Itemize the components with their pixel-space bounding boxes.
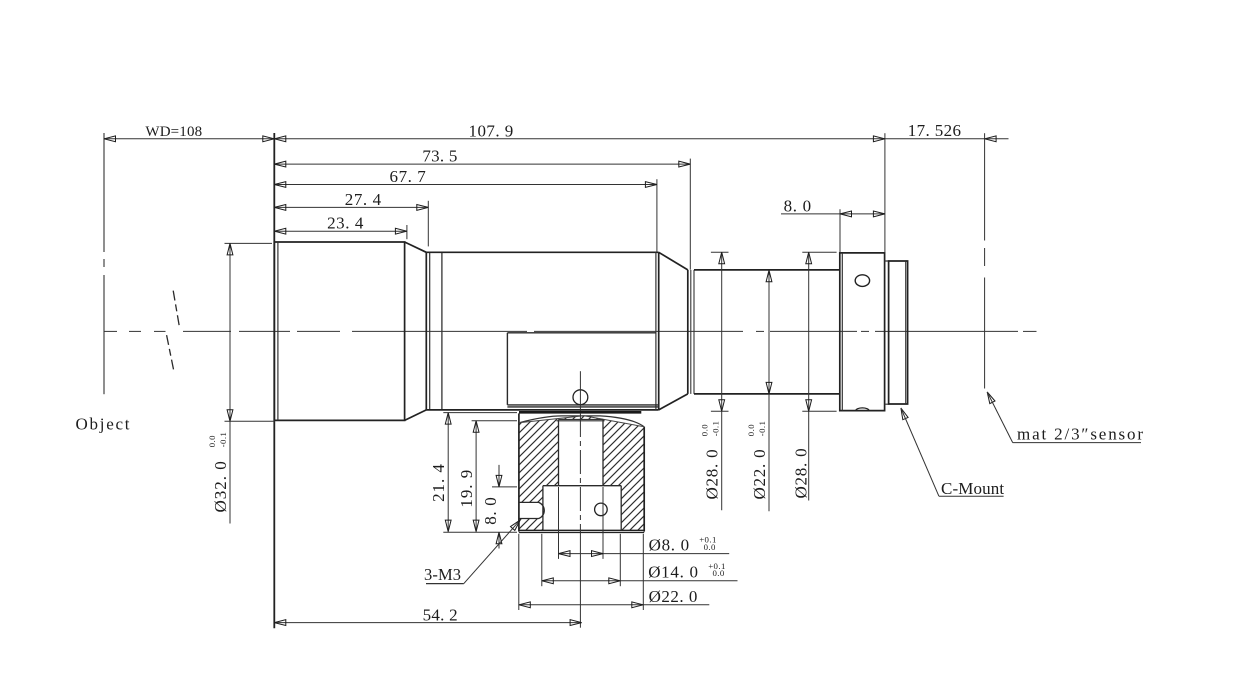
extension line at counterbore top for 8.0 — [492, 486, 517, 488]
dimension line Phi22 — [519, 604, 710, 606]
ring edge lines after taper — [425, 252, 427, 410]
dimension line Phi14 — [542, 580, 738, 582]
foot bottom double line — [519, 529, 644, 531]
extension line at body bottom for 21.4 — [443, 412, 517, 414]
Phi8 bore right wall — [602, 419, 604, 485]
3-M3 notch outline with drilled end — [519, 502, 544, 518]
C-mount thread ring — [889, 261, 908, 404]
foot saddle top curve — [519, 416, 644, 427]
svg-text:73. 5: 73. 5 — [422, 147, 457, 166]
extension line at foot bottom — [443, 531, 517, 533]
svg-text:0.0: 0.0 — [699, 424, 709, 436]
svg-text:-0.1: -0.1 — [218, 432, 228, 448]
svg-text:0.0: 0.0 — [704, 542, 716, 552]
Phi22 dimension line — [768, 270, 770, 511]
Phi28 first dimension line — [721, 252, 723, 510]
thread relief line on ring — [905, 261, 907, 404]
extension line for 27.4 — [427, 201, 429, 247]
Phi28 second: extension stubs — [802, 251, 836, 253]
svg-text:-0.1: -0.1 — [757, 421, 767, 437]
dimension line 67.7 — [274, 184, 657, 186]
extension line bore left to Phi8 dim — [558, 487, 560, 559]
Phi8 bore top edge double line — [559, 418, 604, 420]
extension line for 67.7 — [656, 179, 658, 252]
dimension line WD=108 / 107.9 / 17.526 — [104, 138, 1009, 140]
Phi22 neck top edge — [694, 269, 840, 271]
svg-text:0.0: 0.0 — [713, 568, 725, 578]
extension line for 73.5 — [689, 159, 691, 270]
Phi28 first tolerance rotated — [699, 421, 720, 437]
flange face extension line — [884, 133, 886, 253]
collar setscrew centre mark — [579, 371, 581, 412]
break squiggle upper segment — [173, 291, 179, 326]
sensor leader — [987, 392, 995, 404]
svg-text:Ø28. 0: Ø28. 0 — [792, 448, 811, 499]
svg-text:Ø28. 0: Ø28. 0 — [703, 449, 722, 500]
sensor plane dash-dot line — [984, 133, 986, 240]
dimension line 8.0 (counterbore depth), outside arrows — [498, 465, 500, 487]
svg-text:3-M3: 3-M3 — [424, 565, 461, 584]
Phi32 extension line top — [225, 242, 273, 244]
taper Phi28 to Phi22 bottom — [659, 394, 688, 410]
extension line foot right to Phi22 dim — [642, 534, 644, 610]
foot saddle chord lines — [519, 416, 584, 423]
svg-text:54. 2: 54. 2 — [423, 605, 458, 624]
Phi32 tolerance stack rotated — [207, 432, 228, 448]
extension line at bore top for 19.9 — [472, 420, 517, 422]
svg-text:19. 9: 19. 9 — [457, 469, 476, 508]
lower collar rectangle — [507, 333, 658, 407]
extension line counterbore left to Phi14 dim — [541, 534, 543, 586]
break squiggle lower segment — [167, 335, 174, 370]
C-mount clamp block Phi28 — [840, 253, 885, 411]
foot left edge — [518, 413, 520, 531]
main body right edge double line — [655, 252, 657, 410]
svg-text:0.0: 0.0 — [746, 424, 756, 436]
dimension line Phi8 — [559, 553, 730, 555]
svg-text:Ø22. 0: Ø22. 0 — [649, 587, 698, 606]
object plane vertical line (dash-dot) — [103, 133, 105, 252]
Phi32 extension line bottom — [225, 420, 275, 422]
setscrew hole ellipse on clamp block — [855, 275, 869, 287]
Phi28 first: extension stubs — [711, 251, 729, 253]
dimension line 54.2 — [274, 622, 581, 624]
svg-text:Ø8. 0: Ø8. 0 — [649, 536, 690, 555]
clamp block left inner edge — [841, 253, 843, 411]
Phi14 counterbore top edge — [543, 485, 621, 487]
dimension line 21.4 — [447, 413, 449, 532]
Phi28 second dimension line — [808, 252, 810, 500]
svg-text:C-Mount: C-Mount — [941, 479, 1004, 498]
extension line for 23.4 — [406, 225, 408, 239]
svg-text:8. 0: 8. 0 — [481, 497, 500, 525]
focus ring edge line — [441, 252, 443, 410]
front barrel inner left edge line — [277, 242, 279, 420]
Phi22 neck bottom edge — [694, 393, 840, 395]
Phi22 neck left edge lines — [687, 270, 689, 394]
dimension line 27.4 — [274, 206, 428, 208]
front barrel Phi32 outline — [274, 242, 404, 420]
bottom setscrew partial ellipse — [856, 408, 869, 411]
dimension line 73.5 — [274, 163, 690, 165]
mount hole circle in counterbore — [595, 503, 608, 516]
Phi14 tolerance stack — [708, 561, 726, 578]
svg-text:-0.1: -0.1 — [710, 421, 720, 437]
main body Phi28 bottom edge — [426, 409, 658, 411]
Phi32 dimension line — [229, 243, 231, 523]
dimension line 19.9 — [475, 421, 477, 532]
foot top contact thick line — [519, 411, 641, 414]
svg-text:Object: Object — [76, 415, 132, 434]
3-M3 underline and leader — [426, 583, 464, 585]
dimension line 23.4 — [274, 230, 407, 232]
svg-text:0.0: 0.0 — [207, 435, 217, 447]
foot centreline vertical dash-dot — [579, 413, 581, 534]
taper Phi28 to Phi22 top — [659, 252, 688, 270]
extension line foot left to Phi22 dim — [518, 534, 520, 610]
collar setscrew circle — [573, 390, 588, 405]
svg-text:8. 0: 8. 0 — [784, 196, 812, 215]
svg-text:Ø14. 0: Ø14. 0 — [648, 563, 698, 582]
C-Mount leader — [901, 408, 908, 420]
Phi14 counterbore left wall — [542, 486, 544, 531]
svg-text:Ø22. 0: Ø22. 0 — [750, 449, 769, 500]
svg-text:107. 9: 107. 9 — [469, 122, 514, 141]
svg-text:23. 4: 23. 4 — [327, 214, 364, 233]
dimension line 8.0 (C-mount clamp width) — [781, 213, 885, 215]
svg-text:21. 4: 21. 4 — [429, 463, 448, 502]
taper Phi32 to Phi28 top — [405, 242, 427, 252]
svg-text:27. 4: 27. 4 — [345, 190, 382, 209]
Phi22 tolerance rotated — [746, 421, 767, 437]
foot centreline extension to 54.2 dimension — [579, 534, 581, 628]
svg-text:mat 2/3″sensor: mat 2/3″sensor — [1017, 424, 1145, 443]
Phi8 tolerance stack — [699, 535, 717, 553]
foot right edge — [643, 427, 645, 532]
Phi14 counterbore right wall — [620, 486, 622, 531]
svg-text:67. 7: 67. 7 — [390, 167, 427, 186]
svg-text:WD=108: WD=108 — [145, 124, 202, 140]
taper Phi32 to Phi28 bottom — [405, 410, 427, 421]
svg-text:17. 526: 17. 526 — [908, 121, 962, 140]
front face main extension line — [273, 133, 275, 628]
extension line counterbore right to Phi14 dim — [619, 534, 621, 586]
horizontal optical centerline segments — [104, 330, 117, 332]
extension line bore right to Phi8 dim — [602, 487, 604, 559]
rear step band — [885, 261, 889, 404]
main body Phi28 top edge — [426, 251, 658, 253]
Phi8 bore left wall — [558, 419, 560, 485]
extension line for 8.0 top — [839, 209, 841, 253]
foot hatched cross-section — [519, 416, 644, 531]
svg-text:Ø32. 0: Ø32. 0 — [211, 460, 230, 512]
